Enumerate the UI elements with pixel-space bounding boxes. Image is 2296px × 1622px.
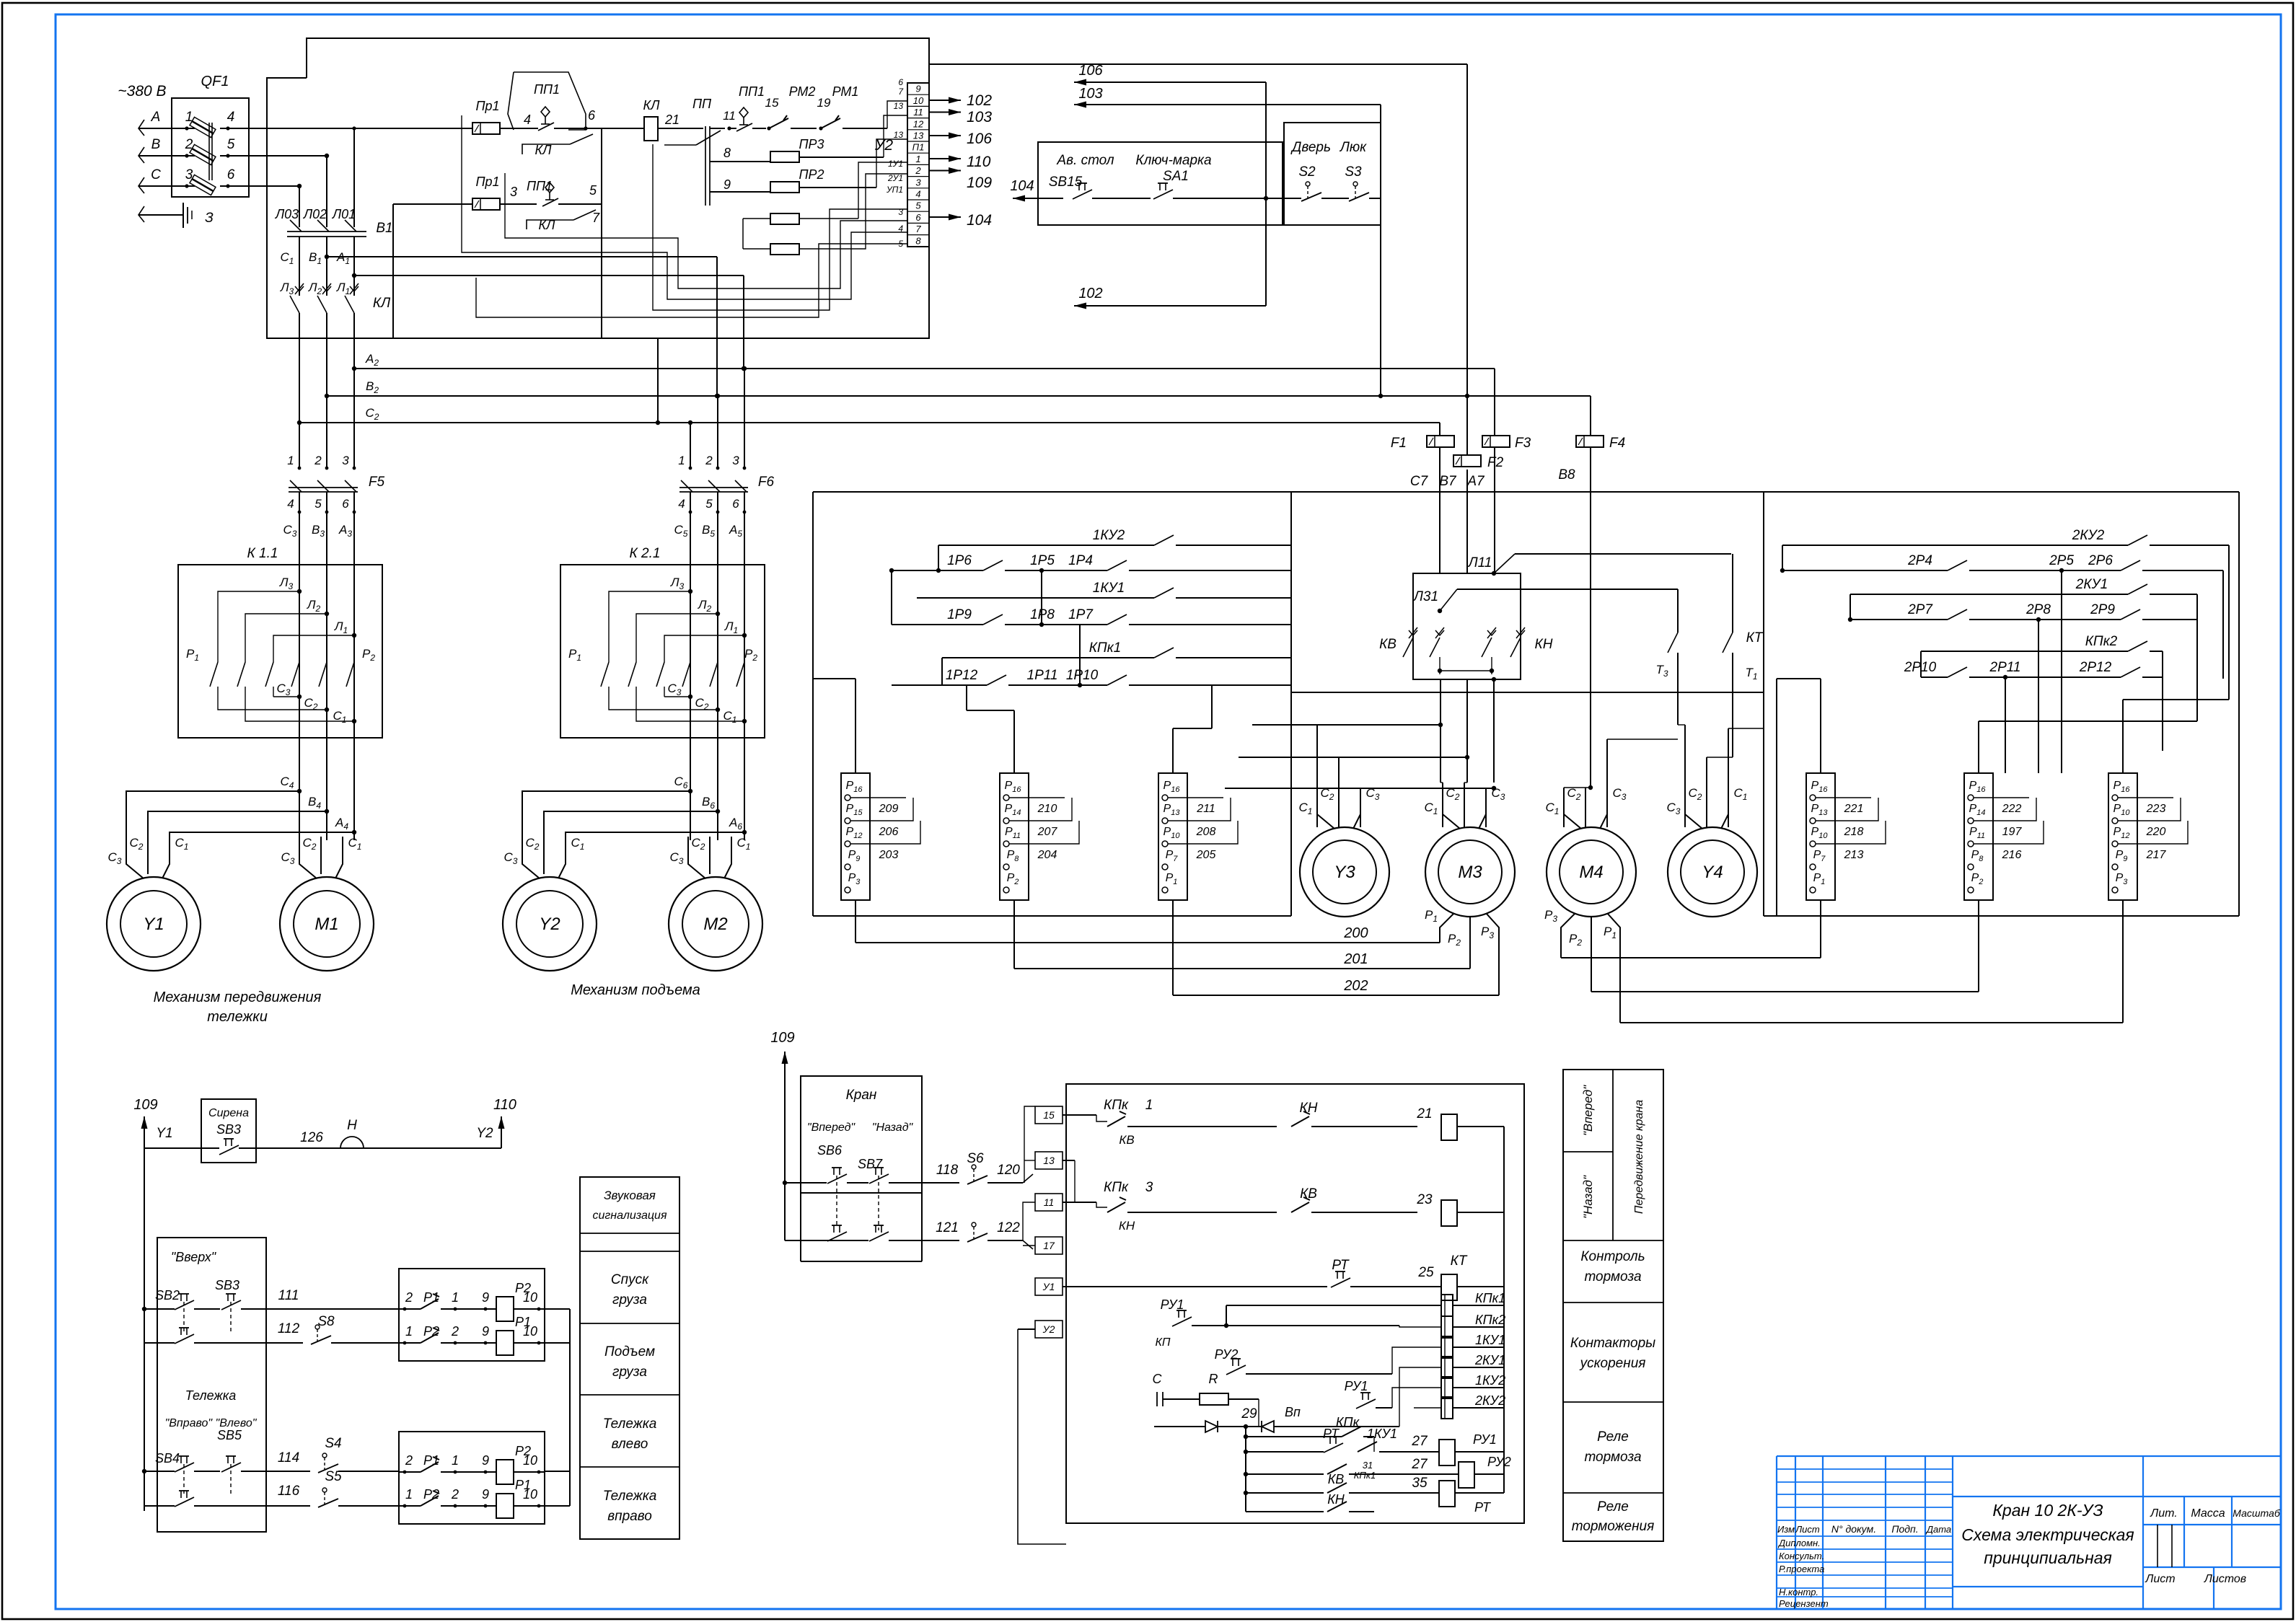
svg-text:З: З (205, 211, 214, 226)
svg-text:2Р4: 2Р4 (1907, 553, 1932, 568)
svg-text:Тележка: Тележка (603, 1489, 657, 1504)
svg-text:4: 4 (915, 189, 920, 200)
svg-text:Звуковая: Звуковая (604, 1189, 656, 1202)
svg-text:31: 31 (1363, 1460, 1373, 1471)
svg-text:5: 5 (227, 137, 235, 152)
svg-text:15: 15 (1043, 1109, 1055, 1121)
svg-text:R: R (1209, 1372, 1218, 1386)
svg-text:220: 220 (2146, 826, 2166, 838)
svg-text:КТ: КТ (1746, 630, 1764, 645)
svg-text:1Р4: 1Р4 (1068, 553, 1093, 568)
svg-text:Масса: Масса (2191, 1507, 2225, 1520)
svg-text:21: 21 (1416, 1106, 1432, 1121)
svg-text:РМ2: РМ2 (789, 84, 816, 99)
svg-text:ПП1: ПП1 (534, 82, 560, 97)
svg-text:114: 114 (278, 1450, 299, 1465)
svg-text:1: 1 (678, 454, 685, 467)
svg-text:F6: F6 (758, 475, 775, 490)
svg-text:КПк: КПк (1336, 1415, 1360, 1429)
svg-text:принципиальная: принципиальная (1984, 1548, 2112, 1567)
svg-text:КПк1: КПк1 (1089, 640, 1122, 656)
svg-text:35: 35 (1412, 1476, 1428, 1491)
svg-text:217: 217 (2146, 849, 2167, 861)
svg-text:200: 200 (1343, 925, 1368, 941)
svg-text:109: 109 (133, 1097, 157, 1113)
svg-text:Y1: Y1 (143, 914, 164, 934)
svg-text:РТ: РТ (1332, 1258, 1350, 1273)
svg-text:5: 5 (589, 183, 597, 198)
svg-text:C: C (151, 167, 161, 182)
svg-text:10: 10 (523, 1290, 537, 1305)
svg-text:2: 2 (451, 1324, 459, 1339)
svg-text:1Р8: 1Р8 (1030, 607, 1055, 622)
svg-text:3: 3 (1145, 1180, 1153, 1195)
svg-text:5: 5 (315, 497, 322, 511)
svg-text:10: 10 (523, 1487, 537, 1502)
svg-text:тележки: тележки (207, 1009, 268, 1025)
svg-text:112: 112 (278, 1321, 300, 1336)
svg-text:5: 5 (898, 239, 903, 249)
svg-text:4: 4 (898, 224, 903, 234)
svg-text:1: 1 (287, 454, 294, 467)
svg-text:П1: П1 (912, 142, 925, 153)
svg-text:221: 221 (1844, 803, 1864, 815)
svg-text:9: 9 (482, 1324, 489, 1339)
svg-text:211: 211 (1196, 803, 1215, 815)
svg-text:111: 111 (278, 1288, 299, 1303)
svg-text:9: 9 (723, 177, 731, 192)
svg-text:13: 13 (1043, 1155, 1055, 1166)
svg-text:КПк: КПк (1104, 1098, 1129, 1113)
svg-text:вправо: вправо (607, 1509, 652, 1524)
svg-text:SB15: SB15 (1049, 175, 1083, 190)
svg-text:121: 121 (936, 1220, 959, 1235)
svg-text:205: 205 (1196, 849, 1216, 861)
svg-text:2: 2 (915, 165, 921, 176)
svg-text:Y1: Y1 (156, 1126, 172, 1141)
svg-text:влево: влево (612, 1437, 648, 1452)
svg-text:Подп.: Подп. (1891, 1523, 1918, 1535)
svg-text:SB2: SB2 (155, 1288, 180, 1303)
svg-text:Р.проекта: Р.проекта (1779, 1564, 1824, 1574)
svg-text:3: 3 (510, 185, 517, 199)
svg-text:104: 104 (967, 212, 992, 229)
svg-text:КЛ: КЛ (643, 98, 661, 113)
svg-text:Кран 10 2К-УЗ: Кран 10 2К-УЗ (1992, 1501, 2103, 1520)
svg-text:Реле: Реле (1597, 1499, 1629, 1515)
svg-text:19: 19 (817, 96, 831, 110)
svg-text:17: 17 (1043, 1240, 1055, 1251)
svg-text:Y4: Y4 (1702, 863, 1723, 882)
svg-text:23: 23 (1416, 1192, 1433, 1207)
svg-text:ускорения: ускорения (1579, 1356, 1646, 1371)
svg-text:8: 8 (915, 235, 921, 246)
svg-text:2Р5: 2Р5 (2049, 553, 2074, 568)
svg-text:201: 201 (1343, 951, 1368, 967)
svg-text:2У1: 2У1 (887, 173, 903, 183)
svg-text:К 1.1: К 1.1 (247, 546, 278, 561)
svg-text:5: 5 (915, 200, 921, 211)
svg-text:S2: S2 (1298, 164, 1316, 180)
svg-text:1: 1 (405, 1487, 413, 1502)
svg-text:КВ: КВ (1119, 1133, 1134, 1147)
svg-text:F5: F5 (369, 475, 385, 490)
svg-text:110: 110 (967, 154, 991, 170)
svg-text:2: 2 (451, 1487, 459, 1502)
svg-text:216: 216 (2002, 849, 2022, 861)
svg-text:6: 6 (588, 108, 596, 123)
svg-text:ПР2: ПР2 (799, 167, 824, 182)
svg-text:120: 120 (997, 1163, 1020, 1178)
svg-text:РУ1: РУ1 (1345, 1379, 1368, 1393)
svg-text:223: 223 (2146, 803, 2166, 815)
svg-text:106: 106 (1078, 63, 1103, 79)
svg-text:сигнализация: сигнализация (593, 1209, 667, 1222)
svg-text:7: 7 (592, 211, 600, 225)
svg-text:КЛ: КЛ (535, 143, 553, 157)
svg-text:3: 3 (898, 207, 903, 217)
svg-text:9: 9 (482, 1290, 489, 1305)
svg-text:10: 10 (913, 95, 924, 106)
svg-text:1У1: 1У1 (888, 159, 903, 169)
svg-text:Л03: Л03 (275, 207, 299, 221)
svg-text:4: 4 (524, 113, 531, 127)
svg-text:Ключ-марка: Ключ-марка (1135, 153, 1211, 168)
svg-text:Контроль: Контроль (1580, 1249, 1645, 1264)
svg-text:11: 11 (723, 109, 736, 123)
svg-text:10: 10 (523, 1324, 537, 1339)
svg-text:Консульт.: Консульт. (1779, 1551, 1824, 1561)
svg-text:11: 11 (1044, 1196, 1055, 1208)
svg-text:F2: F2 (1487, 455, 1504, 470)
svg-text:S8: S8 (317, 1314, 335, 1329)
svg-text:"Вперед": "Вперед" (807, 1121, 856, 1134)
svg-text:Реле: Реле (1597, 1429, 1629, 1445)
svg-text:3: 3 (915, 177, 921, 188)
svg-text:КН: КН (1119, 1219, 1135, 1233)
svg-text:F1: F1 (1391, 436, 1407, 451)
svg-text:Механизм подъема: Механизм подъема (571, 982, 700, 998)
svg-text:27: 27 (1411, 1457, 1428, 1472)
svg-text:13: 13 (913, 131, 924, 141)
svg-text:2Р11: 2Р11 (1989, 660, 2021, 675)
svg-text:Y2: Y2 (539, 914, 560, 934)
svg-text:КЛ: КЛ (539, 218, 556, 232)
svg-text:1: 1 (915, 154, 920, 164)
svg-text:А7: А7 (1466, 474, 1485, 489)
svg-text:SB5: SB5 (217, 1428, 242, 1442)
svg-text:109: 109 (967, 175, 992, 191)
svg-text:КЛ: КЛ (373, 296, 391, 311)
svg-text:КПк: КПк (1104, 1180, 1129, 1195)
svg-text:Дверь: Дверь (1290, 140, 1331, 155)
svg-text:Тележка: Тележка (603, 1416, 657, 1432)
svg-text:13: 13 (894, 101, 904, 111)
svg-text:S3: S3 (1345, 164, 1362, 180)
svg-text:груза: груза (612, 1365, 647, 1380)
svg-text:104: 104 (1010, 178, 1034, 194)
svg-text:1Р12: 1Р12 (946, 668, 978, 683)
svg-text:"Вправо" "Влево": "Вправо" "Влево" (165, 1417, 258, 1429)
svg-text:202: 202 (1343, 978, 1368, 994)
svg-text:РУ1: РУ1 (1473, 1432, 1497, 1447)
svg-text:9: 9 (915, 84, 920, 94)
svg-text:2КУ1: 2КУ1 (2075, 577, 2108, 592)
svg-text:1: 1 (405, 1324, 413, 1339)
svg-text:ПП: ПП (692, 97, 712, 111)
svg-text:29: 29 (1241, 1406, 1257, 1422)
svg-text:126: 126 (300, 1130, 323, 1145)
svg-text:РУ2: РУ2 (1215, 1347, 1239, 1362)
svg-text:6: 6 (915, 212, 921, 223)
svg-text:213: 213 (1844, 849, 1864, 861)
svg-text:1Р11: 1Р11 (1027, 668, 1058, 683)
svg-text:КТ: КТ (1451, 1253, 1468, 1269)
svg-text:2Р8: 2Р8 (2026, 602, 2051, 617)
svg-text:2: 2 (405, 1453, 413, 1468)
svg-text:1КУ2: 1КУ2 (1093, 528, 1125, 543)
svg-text:21: 21 (664, 113, 679, 127)
svg-text:Л01: Л01 (332, 207, 356, 221)
svg-text:F3: F3 (1515, 436, 1531, 451)
svg-text:Рецензент: Рецензент (1779, 1598, 1829, 1609)
svg-text:С: С (1153, 1372, 1163, 1386)
svg-text:103: 103 (967, 109, 992, 125)
svg-text:Масштаб: Масштаб (2233, 1507, 2281, 1519)
svg-text:КП: КП (1155, 1336, 1170, 1349)
svg-text:222: 222 (2002, 803, 2022, 815)
svg-text:Y2: Y2 (476, 1126, 493, 1141)
svg-text:S4: S4 (325, 1436, 341, 1451)
svg-text:КВ: КВ (1328, 1472, 1345, 1486)
svg-text:SB6: SB6 (817, 1143, 843, 1158)
svg-text:27: 27 (1411, 1434, 1428, 1449)
svg-text:У1: У1 (1042, 1281, 1055, 1292)
svg-text:13: 13 (894, 130, 904, 140)
svg-text:102: 102 (967, 92, 992, 109)
svg-text:Л11: Л11 (1467, 555, 1492, 570)
svg-text:Подъем: Подъем (604, 1344, 655, 1359)
svg-text:Люк: Люк (1339, 140, 1367, 155)
svg-text:6: 6 (227, 167, 235, 182)
svg-text:25: 25 (1417, 1265, 1434, 1280)
svg-text:В7: В7 (1439, 474, 1457, 489)
svg-text:Пр1: Пр1 (475, 99, 499, 113)
svg-text:SB3: SB3 (216, 1122, 241, 1137)
svg-text:204: 204 (1037, 849, 1057, 861)
svg-text:12: 12 (913, 118, 924, 129)
svg-text:Н: Н (347, 1118, 357, 1133)
svg-text:РУ1: РУ1 (1161, 1297, 1184, 1312)
svg-text:1Р10: 1Р10 (1066, 668, 1099, 683)
svg-text:2Р9: 2Р9 (2090, 602, 2115, 617)
svg-text:QF1: QF1 (201, 74, 229, 89)
svg-text:Механизм передвижения: Механизм передвижения (154, 989, 322, 1005)
svg-text:Тележка: Тележка (185, 1388, 237, 1403)
svg-text:1КУ1: 1КУ1 (1475, 1333, 1505, 1347)
svg-text:груза: груза (612, 1292, 647, 1308)
svg-text:Пр1: Пр1 (475, 175, 499, 189)
svg-text:РУ2: РУ2 (1487, 1455, 1511, 1469)
svg-text:110: 110 (493, 1097, 516, 1113)
svg-text:тормоза: тормоза (1584, 1269, 1641, 1284)
svg-text:Л31: Л31 (1412, 589, 1438, 604)
svg-text:2КУ2: 2КУ2 (2072, 528, 2105, 543)
svg-text:С7: С7 (1410, 474, 1429, 489)
svg-text:Передвижение крана: Передвижение крана (1633, 1100, 1645, 1214)
svg-text:"Вверх": "Вверх" (171, 1250, 217, 1264)
svg-text:Вп: Вп (1285, 1405, 1301, 1419)
svg-text:SB3: SB3 (215, 1278, 239, 1292)
svg-text:218: 218 (1844, 826, 1864, 838)
svg-text:У2: У2 (874, 137, 893, 154)
svg-text:Ав. стол: Ав. стол (1056, 153, 1114, 168)
svg-text:М3: М3 (1458, 863, 1482, 882)
svg-text:Лит.: Лит. (2150, 1507, 2177, 1520)
svg-text:2Р6: 2Р6 (2088, 553, 2113, 568)
svg-text:КВ: КВ (1379, 637, 1396, 652)
svg-text:116: 116 (278, 1484, 300, 1499)
svg-text:F4: F4 (1609, 436, 1625, 451)
svg-text:Лист: Лист (1795, 1524, 1820, 1535)
svg-text:2Р10: 2Р10 (1904, 660, 1937, 675)
svg-text:Листов: Листов (2204, 1573, 2246, 1585)
svg-text:11: 11 (913, 107, 923, 118)
svg-text:A: A (151, 110, 161, 125)
svg-text:Лист: Лист (2145, 1573, 2175, 1585)
svg-text:1: 1 (452, 1290, 459, 1305)
svg-text:КВ: КВ (1300, 1186, 1317, 1202)
svg-text:"Назад": "Назад" (1581, 1175, 1595, 1219)
svg-text:118: 118 (936, 1163, 959, 1178)
svg-text:КПк2: КПк2 (2085, 634, 2118, 649)
svg-text:КПк2: КПк2 (1475, 1313, 1505, 1327)
svg-text:В8: В8 (1558, 467, 1575, 482)
svg-text:7: 7 (915, 224, 921, 234)
svg-text:"Вперед": "Вперед" (1581, 1085, 1595, 1136)
svg-text:2: 2 (705, 454, 713, 467)
svg-text:тормоза: тормоза (1584, 1450, 1641, 1465)
svg-text:РМ1: РМ1 (832, 84, 859, 99)
svg-text:М2: М2 (703, 914, 727, 934)
svg-text:Изм: Изм (1777, 1524, 1795, 1535)
svg-text:1Р9: 1Р9 (947, 607, 972, 622)
svg-text:1Р7: 1Р7 (1068, 607, 1094, 622)
svg-text:Спуск: Спуск (611, 1272, 649, 1287)
svg-text:К 2.1: К 2.1 (630, 546, 661, 561)
svg-text:209: 209 (879, 803, 899, 815)
svg-text:Кран: Кран (846, 1088, 877, 1103)
svg-text:2: 2 (405, 1290, 413, 1305)
svg-text:102: 102 (1078, 286, 1102, 301)
svg-text:КН: КН (1327, 1492, 1345, 1507)
svg-text:1Р5: 1Р5 (1030, 553, 1055, 568)
svg-text:N° докум.: N° докум. (1831, 1523, 1876, 1535)
svg-text:"Назад": "Назад" (872, 1121, 914, 1134)
svg-text:4: 4 (678, 497, 685, 511)
svg-text:КН: КН (1300, 1101, 1318, 1116)
svg-text:КПк1: КПк1 (1354, 1470, 1376, 1481)
svg-text:2КУ2: 2КУ2 (1474, 1393, 1505, 1408)
svg-text:~380 В: ~380 В (118, 83, 166, 100)
svg-text:2: 2 (314, 454, 322, 467)
svg-text:РТ: РТ (1474, 1500, 1492, 1515)
svg-text:1КУ1: 1КУ1 (1093, 581, 1125, 596)
svg-text:Y3: Y3 (1334, 863, 1355, 882)
svg-text:УП1: УП1 (886, 185, 903, 195)
svg-text:4: 4 (287, 497, 294, 511)
svg-text:Дата: Дата (1925, 1524, 1951, 1535)
svg-text:208: 208 (1196, 826, 1216, 838)
svg-text:197: 197 (2002, 826, 2023, 838)
svg-text:15: 15 (765, 96, 779, 110)
svg-text:5: 5 (705, 497, 713, 511)
svg-text:6: 6 (732, 497, 739, 511)
svg-text:Дипломн.: Дипломн. (1777, 1538, 1821, 1548)
svg-text:106: 106 (967, 131, 992, 147)
svg-text:3: 3 (732, 454, 739, 467)
svg-text:2Р7: 2Р7 (1907, 602, 1933, 617)
svg-text:S6: S6 (967, 1151, 984, 1166)
svg-text:торможения: торможения (1572, 1519, 1655, 1534)
svg-text:Схема электрическая: Схема электрическая (1961, 1525, 2134, 1544)
svg-text:103: 103 (1078, 86, 1102, 102)
svg-text:ПР3: ПР3 (799, 137, 824, 151)
svg-text:Л02: Л02 (303, 207, 327, 221)
svg-text:М4: М4 (1579, 863, 1603, 882)
svg-text:SB4: SB4 (155, 1451, 180, 1465)
svg-text:10: 10 (523, 1453, 537, 1468)
svg-text:1Р6: 1Р6 (947, 553, 972, 568)
svg-text:ПП1: ПП1 (739, 84, 765, 99)
svg-text:РТ: РТ (1323, 1427, 1340, 1441)
svg-text:1КУ1: 1КУ1 (1367, 1427, 1397, 1441)
svg-text:6: 6 (342, 497, 349, 511)
svg-text:4: 4 (227, 110, 235, 125)
svg-text:В1: В1 (376, 221, 392, 236)
svg-text:Н.контр.: Н.контр. (1779, 1587, 1818, 1597)
svg-text:Сирена: Сирена (208, 1107, 249, 1119)
svg-text:1: 1 (1145, 1098, 1153, 1113)
svg-text:B: B (151, 137, 161, 152)
svg-text:2КУ1: 2КУ1 (1474, 1353, 1505, 1367)
svg-text:SB7: SB7 (858, 1157, 883, 1171)
svg-text:9: 9 (482, 1487, 489, 1502)
svg-text:SA1: SA1 (1163, 169, 1189, 184)
svg-text:109: 109 (770, 1030, 794, 1046)
svg-text:КН: КН (1535, 637, 1553, 652)
svg-text:203: 203 (879, 849, 899, 861)
svg-text:М1: М1 (315, 914, 338, 934)
svg-text:9: 9 (482, 1453, 489, 1468)
svg-text:Контакторы: Контакторы (1570, 1336, 1655, 1351)
svg-text:8: 8 (723, 146, 731, 160)
svg-text:206: 206 (879, 826, 899, 838)
svg-text:КПк1: КПк1 (1475, 1291, 1505, 1305)
svg-text:122: 122 (997, 1220, 1020, 1235)
svg-text:210: 210 (1037, 803, 1057, 815)
svg-text:3: 3 (342, 454, 349, 467)
svg-text:2Р12: 2Р12 (2079, 660, 2112, 675)
svg-text:У2: У2 (1042, 1323, 1055, 1335)
svg-text:1КУ2: 1КУ2 (1475, 1373, 1505, 1388)
svg-text:1: 1 (452, 1453, 459, 1468)
svg-text:207: 207 (1037, 826, 1058, 838)
svg-text:6: 6 (898, 77, 903, 87)
